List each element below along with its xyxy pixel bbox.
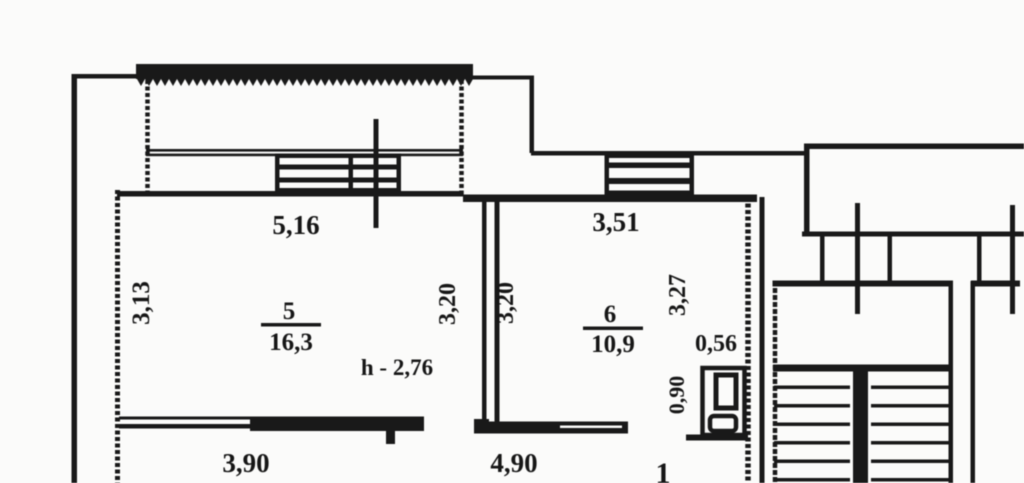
balcony parapet hatched (136, 64, 473, 86)
railing divider 3 (977, 237, 982, 282)
facade wall room6 (531, 151, 806, 156)
wall outer-left (72, 74, 78, 483)
svg-text:16,3: 16,3 (269, 329, 313, 356)
railing divider 2 (888, 237, 893, 282)
wc bottom wall (686, 435, 748, 441)
divider wall rooms 5-6 double line (474, 196, 500, 433)
svg-text:5: 5 (283, 298, 296, 325)
wall solid right of room6 (760, 197, 765, 483)
right lower wall segment A (773, 281, 954, 287)
wall top-left (72, 74, 140, 79)
wall vertical x971 (971, 281, 976, 483)
wc fixture (703, 368, 745, 435)
window W6 room6 (605, 154, 695, 197)
balcony left dotted wall (145, 80, 150, 193)
svg-text:1: 1 (656, 457, 671, 483)
fraction bar room5 (261, 323, 321, 327)
svg-text:5,16: 5,16 (272, 210, 319, 240)
room6 top wall hatched (463, 195, 757, 203)
svg-text:3,27: 3,27 (665, 274, 691, 316)
room6 bottom wall (474, 422, 628, 434)
right lower wall segment B (971, 281, 1020, 287)
svg-text:3,51: 3,51 (592, 207, 639, 237)
right building left wall (804, 144, 810, 237)
right building mid wall (802, 232, 1024, 237)
right building top wall (804, 144, 1024, 150)
svg-text:0,90: 0,90 (664, 376, 689, 415)
svg-text:10,9: 10,9 (591, 331, 635, 358)
stair steps (774, 386, 951, 482)
stairwell landing edge (773, 365, 951, 372)
stair stringer (853, 371, 868, 483)
svg-text:0,56: 0,56 (695, 331, 737, 357)
svg-text:3,13: 3,13 (128, 281, 155, 325)
svg-text:h - 2,76: h - 2,76 (361, 355, 433, 380)
axis line through window W5 (374, 119, 379, 228)
balcony right dotted wall (459, 80, 464, 195)
room5 left dotted wall (115, 190, 120, 483)
stairwell left wall (773, 281, 778, 483)
wall vertical x531 (530, 76, 535, 153)
svg-text:4,90: 4,90 (490, 448, 537, 478)
svg-text:3,90: 3,90 (222, 448, 269, 478)
axis tick left (855, 203, 860, 314)
wall top segment right of balcony (470, 76, 534, 80)
window W5 room5 (275, 154, 401, 194)
room6 right dotted wall (745, 197, 751, 483)
fraction bar room6 (583, 327, 643, 331)
svg-text:3,20: 3,20 (435, 283, 461, 325)
balcony floor double line (146, 149, 463, 156)
svg-text:6: 6 (604, 301, 617, 328)
railing divider 1 (820, 237, 825, 282)
room5 bottom wall (119, 417, 424, 445)
axis tick right (1010, 205, 1015, 314)
svg-text:3,20: 3,20 (493, 282, 519, 324)
stairwell right wall (949, 281, 954, 483)
room5 top wall hatched (117, 191, 463, 197)
